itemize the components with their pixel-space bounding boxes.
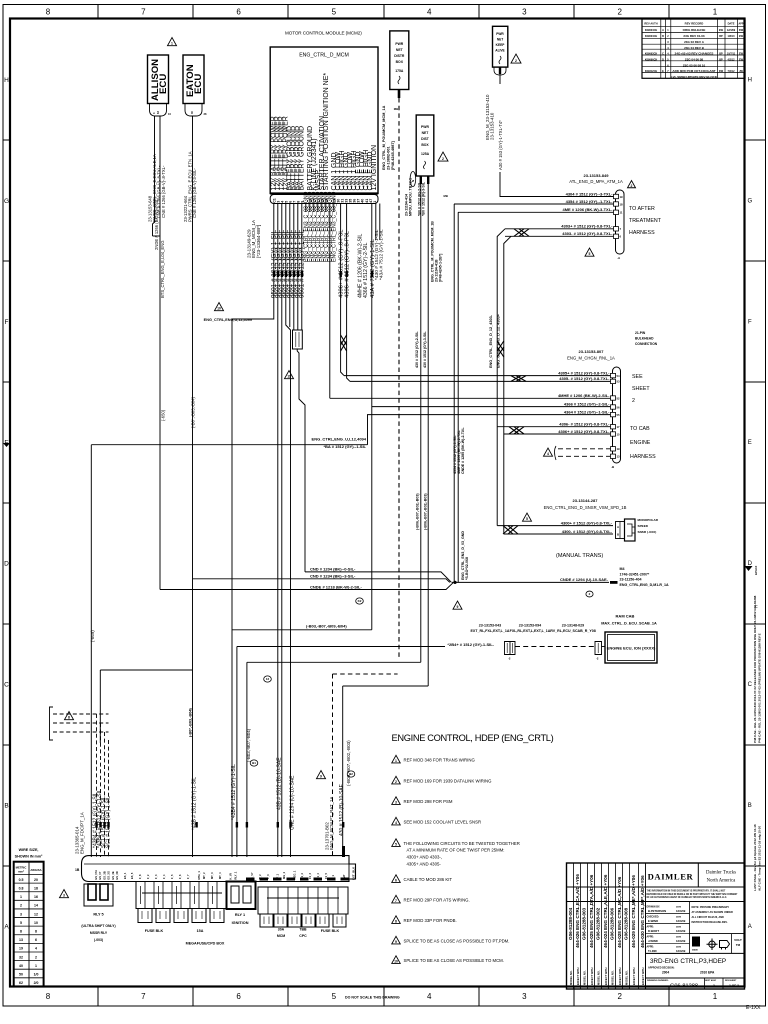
- svg-text:8: 8: [68, 716, 70, 720]
- border tick bottom: [383, 987, 385, 1007]
- svg-text:DIST: DIST: [421, 137, 430, 141]
- relay RLY5 contact 1: [88, 884, 96, 900]
- svg-text:TO CAB: TO CAB: [630, 426, 650, 432]
- megafuse slot divider: [225, 882, 227, 909]
- connector pin 19: [614, 194, 619, 198]
- svg-text:THE INFORMATION IN THIS DOCUME: THE INFORMATION IN THIS DOCUMENT IS PROP…: [647, 890, 727, 893]
- wire b4 jog to strip: [286, 317, 291, 857]
- svg-text:4364 # 1512 (GY)--1-SIL-: 4364 # 1512 (GY)--1-SIL-: [564, 409, 610, 414]
- svg-text:MT_3: MT_3: [210, 872, 214, 879]
- MCM pin stub wire: [333, 204, 335, 213]
- relay RLY1 contact 2: [243, 886, 251, 903]
- svg-text:8: 8: [395, 920, 397, 924]
- svg-text:23-13153-043: 23-13153-043: [479, 624, 501, 628]
- svg-text:464-025 ENG CTRL,DTA,A/D +Y06: 464-025 ENG CTRL,DTA,A/D +Y06: [589, 874, 594, 948]
- svg-text:KEEP: KEEP: [496, 43, 506, 47]
- MCM pin number strip: [270, 195, 378, 204]
- dashed wire bracket 1: [53, 713, 109, 715]
- svg-text:18: 18: [34, 886, 38, 890]
- note triangle 1: [392, 755, 401, 763]
- wire size table row line: [14, 925, 44, 927]
- inline connector on bundle: [293, 330, 303, 349]
- svg-text:EW: EW: [739, 58, 744, 61]
- svg-text:ATL_ENG_D_MPA_ATM_1A: ATL_ENG_D_MPA_ATM_1A: [569, 179, 623, 184]
- svg-text:EW: EW: [719, 29, 724, 32]
- svg-text:BP: BP: [719, 58, 723, 61]
- svg-text:12V IGNITION: 12V IGNITION: [371, 145, 378, 191]
- MCM bottom edge thick: [270, 192, 378, 194]
- svg-text:464-030 ENG CTRL,MF*,A/D +Y06: 464-030 ENG CTRL,MF*,A/D +Y06: [640, 875, 645, 948]
- svg-text:23-13802-001: 23-13802-001: [387, 146, 391, 170]
- svg-text:43B # 1512 (B)-10-SAE: 43B # 1512 (B)-10-SAE: [277, 757, 283, 810]
- svg-text:MODEL NO.: MODEL NO.: [583, 970, 587, 985]
- svg-text:NEXT ASSY: NEXT ASSY: [705, 979, 717, 982]
- svg-text:56: 56: [617, 405, 621, 409]
- wire CAN pair bend right b: [347, 349, 350, 381]
- svg-text:ADD 3RD PCM CKT,COOLANT: ADD 3RD PCM CKT,COOLANT: [672, 69, 715, 73]
- right comb slot divider: [297, 887, 299, 914]
- wire dashed horizontal y674: [333, 673, 398, 675]
- wire stub 125A left thick: [420, 176, 422, 184]
- svg-text:1: 1: [713, 984, 715, 988]
- svg-text:B2: B2: [349, 772, 353, 776]
- svg-text:PWR: PWR: [395, 42, 403, 46]
- svg-text:23G 03 REV A: 23G 03 REV A: [684, 40, 705, 44]
- wire vertical pair feed a: [497, 229, 505, 526]
- svg-text:4303+ AND 4303-,: 4303+ AND 4303-,: [407, 855, 442, 860]
- warning triangle note 5 snsr: [523, 513, 532, 521]
- svg-text:(-B0*,-B03,-B04): (-B0*,-B03,-B04): [190, 396, 195, 428]
- svg-text:9: 9: [457, 605, 459, 609]
- svg-text:BP: BP: [719, 53, 723, 56]
- svg-text:K09004CH: K09004CH: [645, 29, 658, 32]
- connector pin 55: [611, 412, 616, 416]
- border tick left: [3, 865, 10, 867]
- svg-text:EW: EW: [739, 35, 744, 38]
- svg-text:4300+ # 1512 (GY)-0.8-TXL-: 4300+ # 1512 (GY)-0.8-TXL-: [561, 520, 613, 525]
- title block column line: [580, 863, 582, 989]
- svg-text:MONOPOLAR: MONOPOLAR: [638, 518, 659, 522]
- wire keep alive upper segment: [499, 74, 501, 84]
- svg-text:H: H: [748, 77, 752, 83]
- svg-text:MODEL NO.: MODEL NO.: [611, 970, 615, 985]
- svg-text:MADE: MADE: [692, 949, 699, 952]
- megafuse slot divider: [171, 882, 173, 909]
- svg-text:10: 10: [394, 960, 398, 964]
- truck icon: [720, 941, 730, 950]
- svg-text:NOTE: PROVIDE PRELIMINARY: NOTE: PROVIDE PRELIMINARY: [692, 906, 730, 909]
- ALLISON connector shell: [150, 104, 167, 117]
- megafuse tooth wire: [158, 886, 160, 904]
- svg-text:10: 10: [34, 921, 38, 925]
- svg-text:19: 19: [617, 447, 621, 451]
- svg-text:DW: DW: [739, 29, 744, 32]
- svg-text:(-669): (-669): [90, 630, 95, 642]
- wire keep alive lower segment: [500, 172, 617, 197]
- svg-text:DO NOT SCALE THIS DRAWING: DO NOT SCALE THIS DRAWING: [345, 996, 400, 1000]
- svg-text:ES_3G: ES_3G: [107, 871, 111, 879]
- svg-text:BP: BP: [719, 35, 723, 38]
- svg-text:4303- # 1512 (GY)-0.8-TXL-: 4303- # 1512 (GY)-0.8-TXL-: [562, 231, 613, 236]
- wire CAN pair a: [340, 204, 342, 350]
- svg-text:2010 EPA: 2010 EPA: [700, 971, 715, 975]
- wire ALLISON pin 3: [153, 116, 155, 236]
- svg-text:B: B: [748, 803, 752, 809]
- svg-text:ES_5: ES_5: [130, 872, 134, 879]
- right comb slot divider: [327, 887, 329, 914]
- svg-text:19: 19: [19, 947, 23, 951]
- border tick bottom: [668, 987, 670, 1007]
- svg-text:EFFECT WITH: EFFECT WITH: [590, 967, 594, 985]
- wire vertical pair feed b: [504, 236, 511, 534]
- twisted vertical symbol: [497, 341, 504, 357]
- svg-text:54: 54: [617, 374, 621, 378]
- svg-text:REF MOD 348 FOR TRANS WIRING: REF MOD 348 FOR TRANS WIRING: [404, 758, 476, 763]
- twisted pair vertical CAN: [341, 335, 347, 351]
- border tick top: [668, 5, 670, 19]
- wire 125A left down: [420, 184, 422, 662]
- wire 4354 to pin 18: [454, 203, 614, 205]
- svg-text:A30 # 153 (GY)-1-TXL-T4*: A30 # 153 (GY)-1-TXL-T4*: [498, 120, 503, 170]
- svg-text:18: 18: [620, 202, 624, 206]
- svg-text:55: 55: [617, 413, 621, 417]
- border tick left: [3, 260, 10, 262]
- svg-text:30A: 30A: [278, 928, 285, 932]
- svg-text:1/0: 1/0: [34, 973, 39, 977]
- svg-text:20: 20: [34, 878, 38, 882]
- svg-text:G06-81288-004: G06-81288-004: [568, 907, 573, 940]
- svg-text:23G 04 06 08: 23G 04 06 08: [685, 57, 704, 61]
- svg-text:SHOWN IN mm²: SHOWN IN mm²: [15, 855, 43, 859]
- wire MCM ground/power pin 6: [293, 204, 295, 318]
- wire solid to inline conn: [413, 646, 445, 648]
- splice ellipse on 125A wire: [410, 172, 416, 187]
- connector pin 17: [611, 425, 616, 429]
- label dots row near strip: [95, 822, 97, 828]
- right comb slot divider: [317, 887, 319, 914]
- svg-text:4: 4: [427, 8, 432, 17]
- wire 4364 pin 55: [368, 415, 611, 445]
- svg-text:K09063CH: K09063CH: [645, 53, 658, 56]
- wire right stub b: [379, 204, 381, 241]
- svg-text:3: 3: [522, 8, 527, 17]
- wire MCM ground/power pin 7: [297, 204, 299, 318]
- svg-text:12/4/09: 12/4/09: [676, 939, 686, 943]
- svg-text:SPLICE TO BE AS CLOSE AS POSSI: SPLICE TO BE AS CLOSE AS POSSIBLE TO PT,…: [404, 939, 510, 944]
- wire size table row line: [14, 908, 44, 910]
- svg-text:RLY 1: RLY 1: [235, 913, 245, 917]
- svg-text:5: 5: [332, 8, 337, 17]
- svg-text:ES_3B: ES_3B: [102, 871, 106, 879]
- svg-text:Daimler Trucks: Daimler Trucks: [706, 871, 736, 876]
- wire ALLISON common down: [159, 236, 161, 590]
- svg-text:K2: K2: [358, 599, 362, 603]
- wire MCM ground/power pin 4: [285, 204, 287, 318]
- warning triangle lower mid: [317, 771, 326, 779]
- svg-text:CND # 1234 (BK)--3-SIL-: CND # 1234 (BK)--3-SIL-: [310, 574, 356, 579]
- svg-text:ENG_CTRL_EN3_D_12_4303+: ENG_CTRL_EN3_D_12_4303+: [496, 313, 500, 368]
- svg-text:EXT_RL,FXL,EXT,L_1A: EXT_RL,FXL,EXT,L_1A: [471, 629, 510, 633]
- svg-text:B: B: [617, 533, 619, 537]
- wire MCM ground/power pin 1: [273, 204, 275, 318]
- wire 4MHE pin 52: [330, 397, 611, 399]
- svg-text:4: 4: [427, 992, 432, 1001]
- title block signature column: [645, 902, 647, 990]
- svg-text:E-1XX: E-1XX: [746, 1005, 761, 1011]
- svg-text:[*23-13364-BB*]: [*23-13364-BB*]: [256, 225, 261, 258]
- svg-text:464-024 ENG CTRL,ALE,A/D +Y06: 464-024 ENG CTRL,ALE,A/D +Y06: [603, 874, 608, 948]
- note triangle 10: [392, 956, 401, 964]
- svg-text:19: 19: [620, 195, 624, 199]
- megafuse slot divider: [153, 882, 155, 909]
- svg-text:CABLE TO MOD 286 KIT: CABLE TO MOD 286 KIT: [404, 877, 453, 882]
- connector pin 15: [611, 432, 616, 436]
- svg-text:MB: MB: [444, 194, 448, 198]
- svg-text:ENG_CTRL_ENG_D_SNSR_VSM_SPD_1B: ENG_CTRL_ENG_D_SNSR_VSM_SPD_1B: [544, 505, 627, 510]
- svg-text:(-650): (-650): [161, 409, 166, 421]
- svg-text:mm²: mm²: [18, 870, 24, 874]
- svg-text:AWG/SA: AWG/SA: [30, 868, 41, 872]
- svg-text:ENG_CTRL_EN3_C_03_GND: ENG_CTRL_EN3_C_03_GND: [332, 191, 338, 262]
- svg-text:0.8: 0.8: [19, 886, 24, 890]
- svg-text:G06-81288-006: G06-81288-006: [610, 907, 615, 940]
- warning triangle note 4 dashed: [544, 448, 553, 456]
- connector pin 11: [614, 210, 619, 214]
- svg-text:D: D: [662, 58, 664, 61]
- connector pin 7: [614, 227, 619, 231]
- dashed vertical to strip 1: [96, 714, 98, 857]
- svg-text:464-026 ENG CTRL,ECA,A/D +Y06: 464-026 ENG CTRL,ECA,A/D +Y06: [575, 874, 580, 948]
- wire 4366 pin 56: [372, 406, 611, 408]
- svg-text:23-13144-287: 23-13144-287: [573, 498, 599, 503]
- svg-text:TM: TM: [736, 943, 741, 947]
- svg-text:*43A # 7512 (GY)-1-SIL: *43A # 7512 (GY)-1-SIL: [379, 229, 385, 280]
- wire CNDE 1218 horizontal: [160, 583, 453, 590]
- svg-text:ENG_CTRL_M_POU/MCM_MCM_1A: ENG_CTRL_M_POU/MCM_MCM_1A: [382, 105, 386, 170]
- svg-text:BOX: BOX: [421, 143, 429, 147]
- wire b1 bend left to strip: [232, 317, 274, 857]
- wire size table row line: [14, 951, 44, 953]
- svg-text:0.5: 0.5: [19, 878, 24, 882]
- megafuse tooth wire: [212, 886, 214, 904]
- junction dot CND merge: [453, 581, 456, 584]
- signature row CHECKED:: [646, 922, 690, 924]
- dashed wire pin 13: [558, 455, 611, 457]
- svg-text:ES_3D: ES_3D: [115, 871, 119, 879]
- svg-text:RLY 5: RLY 5: [93, 913, 103, 917]
- svg-text:SHEET: SHEET: [632, 386, 650, 392]
- svg-text:4306- # 1512 (GY)-0.8-TXL-: 4306- # 1512 (GY)-0.8-TXL-: [559, 422, 610, 427]
- svg-text:IGNITION: IGNITION: [232, 921, 249, 925]
- svg-text:15A: 15A: [197, 929, 204, 933]
- svg-text:125A: 125A: [421, 152, 430, 156]
- connector pin 56: [611, 405, 616, 409]
- svg-text:G06-81288-003: G06-81288-003: [582, 907, 587, 940]
- right comb slot divider: [277, 887, 279, 914]
- svg-text:-2: -2: [508, 657, 511, 661]
- wire size table row line: [14, 942, 44, 944]
- MCM pin stub wire: [309, 204, 311, 213]
- border tick right: [745, 260, 766, 262]
- border tick left: [3, 502, 10, 504]
- wire vertical -669 from 4094 corner: [90, 445, 92, 857]
- svg-text:P48 CAE - REL 23-13802-001 201: P48 CAE - REL 23-13802-001 2012-07-02 (P…: [758, 633, 762, 743]
- border tick top: [97, 5, 99, 19]
- brace dashed wires: [555, 446, 557, 460]
- revision table row line: [642, 43, 745, 45]
- wire MCM ground/power pin 5: [289, 204, 291, 318]
- svg-text:12/4/09: 12/4/09: [727, 29, 736, 32]
- revision table row line: [642, 60, 745, 62]
- svg-text:K_V5: K_V5: [229, 872, 233, 879]
- wire 4305- pin 53: [350, 380, 611, 382]
- border tick top: [287, 5, 289, 19]
- svg-text:12/4/09: 12/4/09: [676, 949, 686, 953]
- megafuse slot divider: [198, 882, 200, 909]
- svg-text:DAIMLER: DAIMLER: [648, 872, 694, 882]
- XL mark icons row: [692, 937, 700, 947]
- svg-text:7: 7: [395, 899, 397, 903]
- wire CND 1204 horizontal: [305, 572, 452, 583]
- svg-text:(-B06,-B07,-B02,-B03): (-B06,-B07,-B02,-B03): [423, 493, 427, 530]
- dashed wire into ECU: [602, 646, 606, 648]
- signature row APPD:: [646, 932, 690, 934]
- svg-text:LVL SNSR,UPDATE REV BLOCK: LVL SNSR,UPDATE REV BLOCK: [671, 75, 718, 79]
- svg-text:13: 13: [617, 455, 621, 459]
- MCM pin stub wire: [305, 204, 307, 213]
- connector pin 18: [614, 202, 619, 206]
- wire CND 1234 horizontal: [193, 579, 450, 583]
- power box PWR NET DIST BOX 125A: [416, 115, 434, 176]
- svg-text:2NDE # 1266 (BK-W)-2-SIL-: 2NDE # 1266 (BK-W)-2-SIL-: [154, 197, 159, 250]
- svg-text:F_3: F_3: [154, 874, 158, 879]
- svg-text:*S-BO*02-068: *S-BO*02-068: [465, 557, 469, 580]
- svg-text:ENGINE ECU, ION (XXXX): ENGINE ECU, ION (XXXX): [607, 646, 656, 651]
- svg-text:7: 7: [141, 8, 146, 17]
- wire 4ME to pin 11: [458, 211, 614, 213]
- svg-text:SPLICE TO BE AS CLOSE AS POSSI: SPLICE TO BE AS CLOSE AS POSSIBLE TO MCM…: [404, 958, 504, 963]
- junction thick segment M4: [610, 581, 618, 584]
- wire stepped below inline connector: [297, 349, 305, 572]
- wire label bold dot: [285, 271, 287, 277]
- wire vertical x342 to strip: [342, 686, 344, 857]
- note triangle 4: [392, 817, 401, 825]
- svg-text:A: A: [4, 923, 9, 930]
- note triangle 7: [392, 895, 401, 903]
- revision table row line: [642, 66, 745, 68]
- wire label bold dot: [293, 271, 295, 277]
- title block column line: [587, 863, 589, 989]
- svg-text:FUSE BLK: FUSE BLK: [321, 929, 340, 933]
- revision table column line: [665, 19, 667, 78]
- title block column line: [608, 863, 610, 989]
- border tick left: [3, 623, 10, 625]
- megafuse slot divider: [189, 882, 191, 909]
- wire snsr+: [497, 525, 613, 527]
- svg-text:CONNECTION: CONNECTION: [635, 342, 658, 346]
- wire size table row line: [14, 977, 44, 979]
- wire vertical x246 to strip: [246, 662, 248, 857]
- ECU block U1 MCM outline: [270, 47, 378, 194]
- svg-text:13: 13: [19, 938, 23, 942]
- wire CAN pair b: [346, 204, 348, 350]
- MCM pin stub wire: [321, 204, 323, 213]
- svg-text:G: G: [4, 198, 9, 205]
- svg-text:TO AFTER: TO AFTER: [629, 206, 655, 212]
- svg-text:4303+ # 1512 (GY)-0.8-TXL-: 4303+ # 1512 (GY)-0.8-TXL-: [561, 224, 613, 229]
- dashed wire bracket 3: [53, 731, 109, 733]
- svg-text:REV AUTH: REV AUTH: [644, 22, 657, 26]
- connector pin 19: [611, 447, 616, 451]
- fuse connector square: [138, 909, 152, 923]
- splice circle K2: [356, 598, 364, 604]
- megafuse slot divider: [180, 882, 182, 909]
- svg-text:8: 8: [20, 929, 22, 933]
- svg-text:9: 9: [395, 940, 397, 944]
- svg-text:17: 17: [617, 425, 621, 429]
- svg-text:23-13153-410: 23-13153-410: [489, 112, 494, 140]
- note triangle 2: [392, 776, 401, 784]
- border tick right: [745, 623, 766, 625]
- title row divider: [646, 952, 745, 954]
- svg-text:F_6: F_6: [178, 874, 182, 879]
- svg-text:FUSE BLK: FUSE BLK: [145, 929, 164, 933]
- title block daimler row divider: [567, 886, 745, 888]
- warning triangle after treatment top: [628, 181, 636, 188]
- inline connector 2: [595, 642, 602, 655]
- border tick left: [3, 139, 10, 141]
- wire size table row line: [14, 891, 44, 893]
- wire 4094 horizontal: [91, 444, 367, 446]
- warning triangle note 10: [215, 303, 224, 311]
- svg-text:EFFECT WITH: EFFECT WITH: [641, 967, 645, 985]
- right comb internal bus: [267, 897, 339, 899]
- border tick top: [192, 5, 194, 19]
- svg-text:RLY_1: RLY_1: [234, 871, 238, 879]
- revision table row line: [642, 32, 745, 34]
- svg-text:NET: NET: [497, 38, 503, 42]
- svg-text:CNE # 1294 (U)-10-SAE: CNE # 1294 (U)-10-SAE: [289, 775, 295, 830]
- svg-text:21-PIN: 21-PIN: [635, 331, 646, 335]
- svg-text:1: 1: [713, 8, 718, 17]
- twisted pair see sheet: [511, 376, 526, 382]
- svg-text:ENG_CTRL_EN3_D_12_4303-: ENG_CTRL_EN3_D_12_4303-: [489, 314, 493, 368]
- border tick left: [3, 381, 10, 383]
- svg-text:12/4/09: 12/4/09: [676, 929, 686, 933]
- svg-text:1B: 1B: [75, 868, 80, 872]
- svg-text:1: 1: [35, 964, 37, 968]
- svg-text:SNSR (-XXX): SNSR (-XXX): [638, 530, 657, 534]
- svg-text:5: 5: [589, 252, 591, 256]
- revision table column line: [660, 19, 662, 78]
- wire single 43A down: [371, 204, 373, 630]
- wire b5 stub: [289, 317, 291, 327]
- warning triangle left of M4: [453, 601, 462, 609]
- ECU block ENGINE ECU ION: [605, 632, 657, 663]
- svg-text:MODEL NO.: MODEL NO.: [597, 970, 601, 985]
- warning triangle bracket: [65, 712, 74, 720]
- border tick top: [478, 5, 480, 19]
- svg-text:ORIG RELEASE: ORIG RELEASE: [683, 28, 706, 32]
- dashed vertical to strip 4: [108, 740, 110, 857]
- svg-text:4MHE # 1206 (BK-W)-2-SIL-: 4MHE # 1206 (BK-W)-2-SIL-: [558, 393, 610, 398]
- connector pin 54: [611, 373, 616, 377]
- svg-text:REF MOD 33P FOR PNDB.: REF MOD 33P FOR PNDB.: [404, 918, 457, 923]
- svg-text:4/2/12: 4/2/12: [728, 58, 736, 61]
- svg-text:ENG_M_PCM,PT_RAT_1A: ENG_M_PCM,PT_RAT_1A: [329, 797, 334, 850]
- wire size table outline: [14, 862, 44, 987]
- wire MCM ground/power pin 3: [281, 204, 283, 318]
